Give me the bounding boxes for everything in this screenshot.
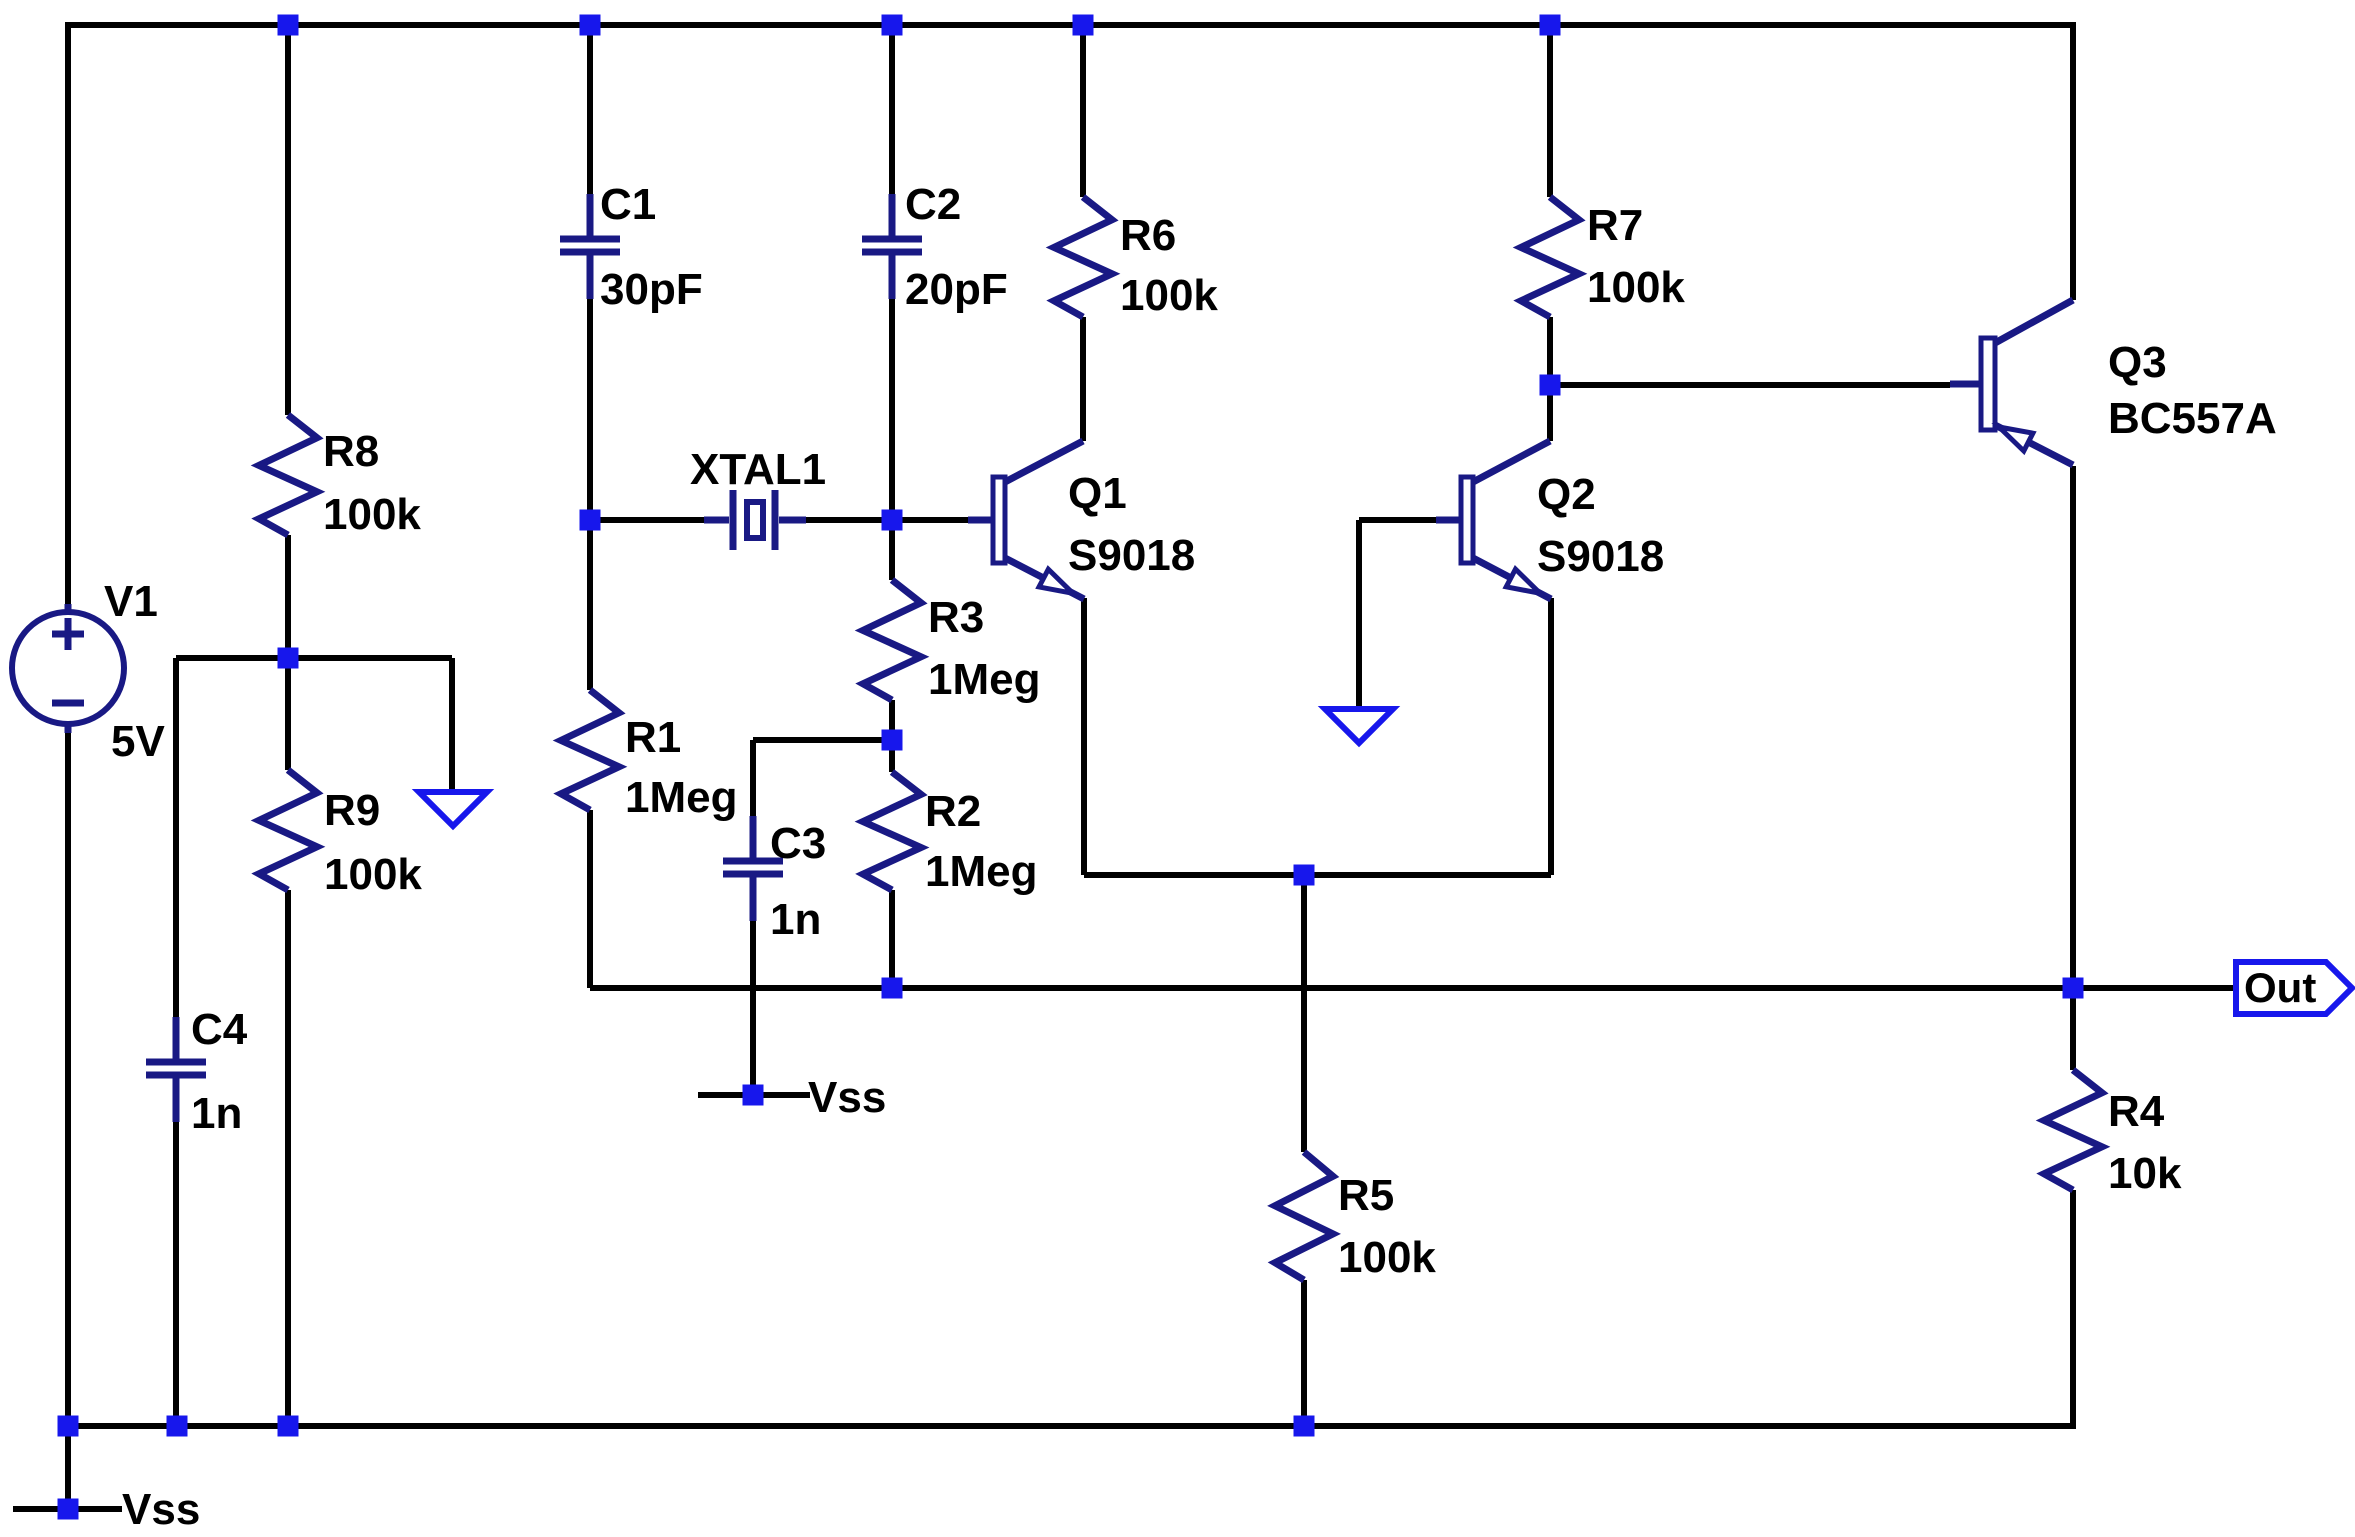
resistor R1 xyxy=(561,690,737,822)
svg-text:100k: 100k xyxy=(1120,271,1218,320)
transistor Q2 (NPN) xyxy=(1436,441,1664,599)
wire C3 link xyxy=(753,737,892,743)
svg-text:1Meg: 1Meg xyxy=(925,847,1037,896)
svg-text:100k: 100k xyxy=(1338,1233,1436,1282)
wire R6 bottom / Q1 collector xyxy=(1080,317,1086,441)
wire left rail upper xyxy=(65,22,71,613)
resistor R3 xyxy=(863,580,1040,704)
transistor Q3 (PNP) xyxy=(1950,300,2277,465)
wire R7 bottom / Q2 collector xyxy=(1547,317,1553,441)
wire top 5V rail xyxy=(65,22,2076,28)
wire C2 top xyxy=(889,25,895,194)
svg-text:R1: R1 xyxy=(625,713,681,762)
svg-text:R5: R5 xyxy=(1338,1171,1394,1220)
wire C4 bottom xyxy=(173,1122,179,1429)
node bottom rail left xyxy=(58,1416,79,1437)
svg-text:100k: 100k xyxy=(1587,263,1685,312)
capacitor C3 xyxy=(723,816,826,944)
wire bottom rail xyxy=(65,1423,2076,1429)
wire right rail top xyxy=(2070,22,2076,300)
node R7/Q2 collector/Q3 base xyxy=(1540,375,1561,396)
wire Q2 base drop xyxy=(1356,520,1362,712)
node top rail / C1 xyxy=(580,15,601,36)
ground Q2 base xyxy=(1325,709,1393,743)
wire C3 bottom xyxy=(750,921,756,1095)
wire R3 top xyxy=(889,520,895,580)
svg-text:Q2: Q2 xyxy=(1537,470,1596,519)
svg-text:30pF: 30pF xyxy=(600,265,703,314)
wire Vss stub middle xyxy=(698,1092,810,1098)
wire mid-left node xyxy=(176,655,452,661)
wire C1 top xyxy=(587,25,593,194)
svg-text:20pF: 20pF xyxy=(905,265,1008,314)
wire C4 top xyxy=(173,658,179,1017)
node top rail / R6 xyxy=(1073,15,1094,36)
svg-text:Vss: Vss xyxy=(122,1485,200,1534)
node R8-R9 divider xyxy=(278,648,299,669)
wire xtal left xyxy=(590,517,704,523)
node top rail / R7 xyxy=(1540,15,1561,36)
svg-text:R7: R7 xyxy=(1587,201,1643,250)
node bottom rail / R5 xyxy=(1294,1416,1315,1437)
node Vss node middle xyxy=(743,1085,764,1106)
wire R8 bottom xyxy=(285,535,291,658)
node bottom rail / C4 xyxy=(167,1416,188,1437)
crystal XTAL1 xyxy=(690,445,826,550)
resistor R9 xyxy=(259,770,422,899)
svg-text:R2: R2 xyxy=(925,787,981,836)
wire R4 bottom xyxy=(2070,1190,2076,1429)
resistor R4 xyxy=(2044,1070,2182,1198)
wire Q3 collector drop xyxy=(2070,466,2076,1070)
svg-text:C4: C4 xyxy=(191,1005,248,1054)
wire R3 bottom xyxy=(889,700,895,740)
svg-text:V1: V1 xyxy=(104,577,158,626)
node C2/XTAL/Q1 base xyxy=(882,510,903,531)
voltage source V1 xyxy=(12,577,165,766)
capacitor C4 xyxy=(146,1005,248,1138)
node R2 / output net xyxy=(882,978,903,999)
ground near R9 xyxy=(419,792,487,826)
resistor R6 xyxy=(1054,197,1218,320)
svg-text:100k: 100k xyxy=(324,850,422,899)
svg-text:C3: C3 xyxy=(770,819,826,868)
svg-text:R8: R8 xyxy=(323,427,379,476)
svg-text:S9018: S9018 xyxy=(1068,531,1195,580)
wire Q3 base xyxy=(1550,382,1950,388)
svg-text:100k: 100k xyxy=(323,490,421,539)
wire emitter rail xyxy=(1084,872,1551,878)
resistor R7 xyxy=(1521,197,1685,317)
svg-text:Vss: Vss xyxy=(808,1073,886,1122)
wire R5 bottom xyxy=(1301,1280,1307,1429)
wire C3 top xyxy=(750,740,756,816)
svg-text:C2: C2 xyxy=(905,180,961,229)
svg-text:S9018: S9018 xyxy=(1537,532,1664,581)
wire Q2 base xyxy=(1359,517,1436,523)
svg-text:1Meg: 1Meg xyxy=(928,655,1040,704)
wire left Vss drop xyxy=(65,1426,71,1509)
wire R2 top xyxy=(889,740,895,772)
svg-text:R9: R9 xyxy=(324,786,380,835)
node top rail / R8 xyxy=(278,15,299,36)
wire left rail lower xyxy=(65,723,71,1429)
svg-text:C1: C1 xyxy=(600,180,656,229)
wire Vss stub bottom-left xyxy=(13,1506,122,1512)
wire R1 top xyxy=(587,520,593,690)
resistor R8 xyxy=(259,415,421,539)
capacitor C1 xyxy=(560,180,703,314)
wire C2 bottom xyxy=(889,299,895,520)
node C1/XTAL/R1 xyxy=(580,510,601,531)
capacitor C2 xyxy=(862,180,1008,314)
wire Q2 emitter drop xyxy=(1548,598,1554,875)
wire R9 bottom xyxy=(285,890,291,1429)
svg-text:5V: 5V xyxy=(111,717,165,766)
wire xtal right xyxy=(806,517,892,523)
resistor R5 xyxy=(1275,1152,1436,1282)
node bottom rail / R9 xyxy=(278,1416,299,1437)
wire R1 bottom xyxy=(587,810,593,988)
svg-text:R6: R6 xyxy=(1120,211,1176,260)
svg-text:1n: 1n xyxy=(770,895,821,944)
wire C1 bottom xyxy=(587,299,593,520)
svg-text:Q1: Q1 xyxy=(1068,469,1127,518)
wire R8 top xyxy=(285,25,291,415)
wire Q1 base xyxy=(892,517,968,523)
svg-text:Out: Out xyxy=(2244,964,2316,1011)
wire ground stub xyxy=(449,658,455,795)
wire output net xyxy=(590,985,2236,991)
svg-text:Q3: Q3 xyxy=(2108,338,2167,387)
svg-text:BC557A: BC557A xyxy=(2108,394,2277,443)
node output / R4 xyxy=(2063,978,2084,999)
wire Q1 emitter drop xyxy=(1081,598,1087,875)
node R3/R2/C3 xyxy=(882,730,903,751)
svg-text:R3: R3 xyxy=(928,593,984,642)
transistor Q1 (NPN) xyxy=(968,441,1195,599)
svg-text:10k: 10k xyxy=(2108,1149,2182,1198)
svg-text:1Meg: 1Meg xyxy=(625,773,737,822)
svg-text:XTAL1: XTAL1 xyxy=(690,445,826,494)
node top rail / C2 xyxy=(882,15,903,36)
wire R9 top xyxy=(285,658,291,770)
wire R7 top xyxy=(1547,25,1553,197)
svg-text:R4: R4 xyxy=(2108,1087,2165,1136)
resistor R2 xyxy=(863,772,1037,896)
node emitter rail / R5 xyxy=(1294,865,1315,886)
node Vss node bottom-left xyxy=(58,1499,79,1520)
wire R5 top xyxy=(1301,875,1307,1152)
output port Out xyxy=(2236,962,2352,1014)
wire R6 top xyxy=(1080,25,1086,197)
svg-text:1n: 1n xyxy=(191,1089,242,1138)
wire R2 bottom xyxy=(889,890,895,988)
